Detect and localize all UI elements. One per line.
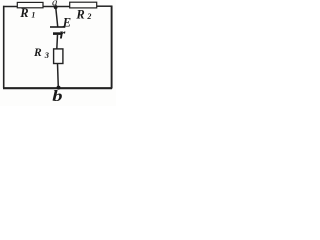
wire: right border vertical: [111, 6, 113, 89]
svg-text:b: b: [52, 87, 62, 104]
svg-text:r: r: [60, 27, 66, 43]
wire: top-right segment from R2 to right border: [97, 5, 113, 7]
battery E: long plate: [50, 26, 65, 28]
background: [0, 0, 116, 106]
wire: left border vertical: [3, 6, 5, 88]
svg-text:2: 2: [86, 12, 91, 21]
wire: top segment R1 to node a to R2: [43, 6, 70, 8]
svg-text:1: 1: [31, 11, 35, 20]
wire: from R3 down to bottom wire: [57, 64, 60, 88]
battery: short thick plate: [53, 32, 62, 35]
wire: top-left segment from left border to R1: [3, 6, 18, 8]
node b junction dot: [57, 86, 61, 90]
resistor R2 box: [70, 2, 97, 8]
wire: from node a down to battery: [56, 7, 58, 27]
svg-text:R: R: [33, 47, 42, 59]
wire: from battery down to R3: [56, 35, 59, 49]
svg-text:R: R: [75, 8, 84, 22]
resistor R3 box: [54, 49, 63, 64]
svg-text:3: 3: [44, 50, 50, 60]
resistor R1 box: [17, 2, 43, 7]
node a junction dot: [54, 5, 58, 9]
wire: bottom horizontal: [3, 87, 112, 89]
svg-text:R: R: [19, 6, 28, 20]
